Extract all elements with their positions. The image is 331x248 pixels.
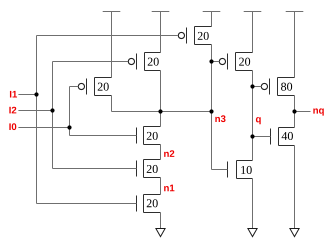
wire input I0 stub: [18, 127, 69, 129]
nmos M8 (gate I1): [137, 195, 161, 213]
wire net I0 vertical: [69, 87, 71, 136]
input label I2: [9, 107, 16, 114]
wire VDD4 stem: [252, 12, 254, 53]
wire M10 source to ground: [294, 146, 296, 229]
nmos M9 (gate n3): [228, 161, 253, 179]
value label 20 of M1: [98, 83, 109, 91]
junction q at M10 gate: [250, 134, 254, 138]
wire net I1 to M3 gate: [37, 35, 178, 37]
junction node I1: [34, 92, 38, 96]
wire net I0 to M1 gate: [70, 86, 79, 88]
pmos M4 (gate n3): [219, 53, 252, 71]
junction node n3: [209, 109, 213, 113]
value label 20 of M7: [147, 165, 158, 173]
junction node I0: [67, 125, 71, 129]
nmos M6 (gate I0): [137, 127, 161, 145]
wire VDD5 stem: [294, 12, 296, 78]
value label 20 of M8: [147, 199, 158, 207]
node label q: [256, 117, 261, 124]
wire q to M10 gate: [253, 136, 271, 138]
value label 20 of M3: [198, 32, 209, 40]
wire node n2 link: [160, 145, 162, 160]
value label 80 of M5: [281, 83, 292, 91]
junction node nq: [292, 109, 296, 113]
input label I0: [9, 123, 16, 130]
wire net I2 to M7 gate: [53, 168, 137, 170]
ground symbol 1: [156, 229, 165, 237]
VDD supply symbol 4: [244, 11, 262, 13]
pmos M5 (gate q): [261, 78, 294, 96]
VDD supply symbol 5: [286, 11, 304, 13]
ground symbol 2: [248, 229, 257, 237]
wire nq stub: [295, 111, 311, 113]
ground symbol 3: [290, 229, 299, 237]
wire net I1 to M8 gate: [37, 203, 137, 205]
output label nq: [313, 108, 323, 115]
wire net I2 to M2 gate: [53, 61, 129, 63]
nmos M7 (gate I2): [137, 160, 161, 178]
wire n3 to M9 gate: [212, 169, 228, 171]
wire M2 drain down to nmos stack: [160, 71, 162, 127]
pmos M1 (gate I0): [78, 78, 111, 96]
node label n2: [164, 150, 174, 157]
nmos M10 (gate q): [271, 128, 295, 146]
pmos M2 (gate I2): [128, 53, 160, 71]
wire VDD2 stem: [160, 12, 162, 53]
node label n1: [164, 185, 174, 192]
wire M9 source to ground: [252, 179, 254, 229]
junction node I2: [50, 108, 54, 112]
junction q at M5 gate: [250, 84, 254, 88]
VDD supply symbol 1: [103, 11, 121, 13]
wire M1 drain down to n3: [111, 96, 113, 112]
pmos M3 (gate I1): [178, 27, 211, 45]
value label 20 of M6: [147, 132, 158, 140]
wire net I2 vertical: [52, 62, 54, 169]
wire input I2 stub: [18, 110, 52, 112]
wire node nq vertical: [294, 96, 296, 128]
wire node n3 horizontal: [112, 111, 212, 113]
node label n3: [215, 115, 225, 122]
wire VDD1 stem: [111, 12, 113, 78]
VDD supply symbol 3: [203, 11, 221, 13]
value label 20 of M4: [239, 58, 250, 66]
wire input I1 stub: [18, 94, 36, 96]
input label I1: [10, 91, 17, 98]
junction n3 at nmos stack: [158, 109, 162, 113]
wire q to M5 gate: [253, 86, 262, 88]
value label 40 of M10: [282, 132, 293, 140]
wire node n1 link: [160, 178, 162, 195]
wire net I0 to M6 gate: [70, 135, 137, 137]
wire n3 to M4 gate: [212, 61, 220, 63]
value label 20 of M2: [148, 58, 159, 66]
wire net I1 vertical: [36, 36, 38, 204]
VDD supply symbol 2: [152, 11, 170, 13]
wire M3 drain down (n3 vertical): [211, 45, 213, 170]
value label 10 of M9: [241, 166, 251, 174]
wire VDD3 stem: [211, 12, 213, 27]
wire node q vertical: [252, 71, 254, 161]
wire M8 source to ground: [160, 213, 162, 229]
junction n3 at M4 gate: [209, 59, 213, 63]
